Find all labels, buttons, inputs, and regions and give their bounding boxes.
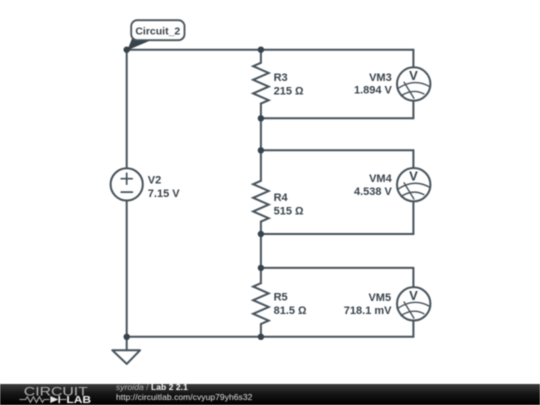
V2 value label [148,175,180,201]
wire VM5 branch top [412,268,414,287]
resistor R4 [253,181,269,222]
svg-text:Circuit_2: Circuit_2 [135,25,180,37]
svg-text:V2: V2 [148,175,161,187]
svg-text:VM5: VM5 [368,292,391,304]
svg-text:215 Ω: 215 Ω [274,86,304,98]
svg-text:718.1 mV: 718.1 mV [344,305,392,317]
wire middle branch segment top [260,50,262,63]
VM4 value label [354,173,393,198]
CircuitLab logo [0,384,110,405]
svg-text:R5: R5 [274,291,288,303]
node R3 top [258,47,264,53]
node R5 bottom [258,334,264,340]
node R5 top [258,265,264,271]
wire VM3 branch top [412,50,414,68]
wire R3-VM3 bottom link [261,117,414,119]
wire top rail [127,49,414,51]
voltmeter VM5 [397,287,430,320]
wire left rail lower [126,201,128,336]
wire VM3 branch bottom [412,101,414,119]
svg-text:V: V [409,288,418,303]
VM5 value label [344,292,392,317]
footer bar [0,384,540,405]
wire bottom rail [127,336,414,338]
node R3 bottom [258,115,264,121]
R3 value label [274,72,304,98]
wire R5-VM5 top link [261,267,414,269]
wire VM5 branch bottom [412,321,414,337]
svg-text:R4: R4 [274,192,289,204]
node junction dots [124,47,265,340]
wire ground stub [126,337,128,350]
node R4 top [258,147,264,153]
svg-text:VM4: VM4 [369,173,393,185]
svg-text:515 Ω: 515 Ω [274,205,304,217]
resistor R3 [253,63,269,104]
wire left rail upper [126,50,128,168]
voltmeter VM3 [397,67,430,100]
wire R4-VM4 bottom link [261,233,414,235]
svg-text:V: V [409,68,418,83]
wire VM4 branch bottom [412,201,414,234]
svg-text:R3: R3 [274,72,288,84]
R5 value label [274,291,307,317]
svg-text:81.5 Ω: 81.5 Ω [274,305,307,317]
R4 value label [274,192,304,217]
voltmeter VM4 [397,168,430,201]
wire R4-VM4 top link [261,149,414,151]
wire middle branch segment R3-R4 [260,103,262,180]
svg-text:V: V [409,169,418,184]
wire middle branch segment R4-R5 [260,222,262,284]
wire VM4 branch top [412,150,414,168]
node ground [124,334,130,340]
node R4 bottom [258,231,264,237]
resistor R5 [253,283,269,324]
svg-text:LAB: LAB [66,395,91,405]
voltage source V2 [111,168,143,200]
svg-text:7.15 V: 7.15 V [148,188,180,200]
svg-text:VM3: VM3 [369,72,392,84]
node top-left [124,47,130,53]
callout label Circuit_2 [127,20,184,50]
svg-text:4.538 V: 4.538 V [354,186,393,198]
wire middle branch segment bottom [260,324,262,337]
svg-text:1.894 V: 1.894 V [354,84,393,96]
ground [112,350,140,364]
VM3 value label [354,72,393,96]
